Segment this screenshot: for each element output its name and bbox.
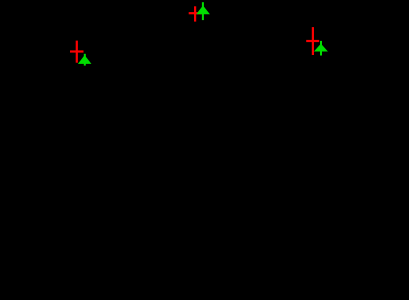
green errorbar triangle marker 3 — [315, 41, 327, 56]
red errorbar cross marker 2 — [189, 6, 202, 21]
green errorbar triangle marker 1 — [79, 54, 91, 66]
green errorbar triangle marker 2 — [197, 2, 209, 20]
red errorbar cross marker 1 — [70, 41, 84, 63]
red errorbar cross marker 3 — [306, 27, 319, 55]
